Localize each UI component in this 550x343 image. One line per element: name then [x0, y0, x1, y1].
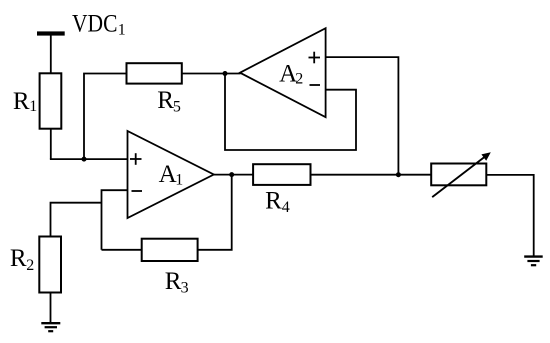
DC supply terminal bar VDC1	[37, 31, 65, 35]
op-amp A2	[240, 28, 326, 117]
svg-text:R: R	[157, 87, 174, 114]
wire R5 right to A2 output apex	[182, 73, 241, 75]
wire RV right to ground	[486, 175, 533, 256]
ground symbol left	[41, 323, 60, 331]
svg-text:R: R	[13, 88, 30, 115]
wire node A to A1 noninverting input	[50, 158, 128, 160]
variable resistor RV body	[431, 164, 486, 186]
svg-text:4: 4	[282, 199, 290, 216]
svg-text:5: 5	[173, 99, 181, 116]
svg-text:R: R	[265, 187, 282, 214]
resistor R5	[127, 63, 182, 83]
wire A1 output to R4 left	[213, 174, 254, 176]
label R2	[10, 245, 34, 274]
svg-text:1: 1	[175, 171, 183, 188]
A1 noninverting pin marker +	[130, 153, 142, 165]
wire R2 bottom to ground	[50, 293, 52, 323]
label A1	[159, 161, 184, 189]
node C junction dot	[396, 172, 401, 177]
svg-text:VDC: VDC	[72, 11, 118, 38]
node B junction dot (A2 output / feedback)	[223, 71, 228, 76]
svg-text:A: A	[159, 161, 177, 188]
wire A1 inverting input left and down	[102, 190, 129, 250]
variable resistor RV arrow	[432, 152, 491, 197]
svg-text:R: R	[165, 268, 182, 295]
A1 inverting pin marker -	[132, 190, 143, 192]
wire VDC1 bar to R1 top	[50, 35, 52, 74]
node D junction dot	[229, 172, 234, 177]
wire branch to R2 top	[51, 203, 102, 237]
wire node A up toward R5	[84, 74, 127, 160]
resistor R1	[40, 73, 62, 128]
A2 noninverting pin marker +	[309, 52, 321, 64]
svg-text:R: R	[10, 245, 27, 272]
wire R1 bottom to node A	[50, 129, 52, 159]
op-amp A1	[128, 131, 214, 218]
label R5	[157, 87, 181, 116]
label VDC1	[72, 11, 126, 39]
label R3	[165, 268, 189, 297]
node A junction dot	[82, 157, 87, 162]
svg-text:3: 3	[181, 279, 189, 296]
svg-text:1: 1	[29, 98, 37, 115]
resistor R4	[253, 164, 310, 185]
A2 inverting pin marker -	[310, 84, 321, 86]
label R4	[265, 187, 290, 216]
label R1	[13, 88, 37, 115]
wire A2 feedback loop (inverting input to output)	[225, 74, 356, 151]
wire inverting net to R3 left	[102, 249, 143, 251]
svg-text:2: 2	[295, 70, 303, 87]
resistor R3	[142, 239, 198, 261]
wire R4 right to variable resistor	[311, 174, 432, 176]
wire A2 noninverting input to output node C	[326, 57, 399, 175]
wire R3 right up to A1 output node D	[198, 175, 232, 250]
label A2	[279, 60, 303, 87]
ground symbol right	[524, 257, 543, 266]
svg-text:1: 1	[118, 22, 126, 39]
svg-text:2: 2	[26, 257, 34, 274]
resistor R2	[39, 237, 61, 293]
